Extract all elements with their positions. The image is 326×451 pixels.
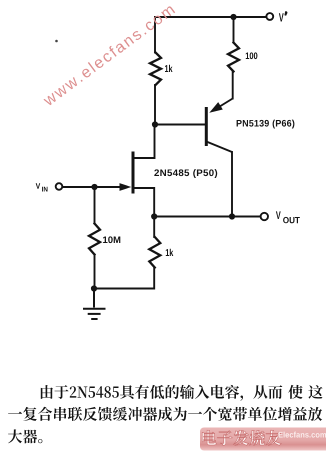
wire 10M to ground node	[94, 255, 96, 289]
watermark badge text 电子发烧友	[202, 430, 281, 445]
wire JFET drain lead up to node A	[133, 125, 155, 159]
ink speck	[55, 40, 58, 43]
wire VIN to gate	[63, 186, 121, 188]
watermark www.elecfans.com	[42, 3, 176, 107]
transistor Q2 emitter arrowhead	[209, 102, 223, 113]
wire left branch upper	[154, 17, 156, 53]
transistor Q2 PN5139 base bar	[205, 107, 208, 146]
caption line 2	[8, 407, 322, 421]
transistor Q2 collector diagonal	[206, 142, 232, 153]
terminal VIN circle	[56, 183, 63, 190]
ground	[83, 289, 106, 320]
terminal VOUT circle	[261, 213, 268, 220]
resistor R2 10M zigzag	[89, 224, 100, 255]
wire R3 to Q2 emitter	[232, 72, 234, 99]
label terminal VOUT	[276, 211, 281, 219]
wire Q2 collector down	[231, 152, 233, 217]
wire 100 resistor top	[233, 17, 235, 43]
caption line 3	[8, 429, 42, 443]
label terminal V+	[279, 13, 284, 21]
wire bottom rail to ground node	[95, 268, 155, 289]
label Q2 type PN5139 (P66)	[237, 120, 295, 129]
label R1 value 1k	[165, 65, 173, 72]
node ground junction	[91, 285, 97, 291]
transistor Q2 emitter diagonal	[214, 99, 233, 111]
label R3 value 100	[246, 52, 258, 59]
resistor R1 1k zigzag	[150, 53, 161, 86]
watermark badge text Elecfans.com	[279, 432, 326, 438]
wire node A to Q2 base	[155, 124, 205, 126]
label R2 value 10M	[103, 236, 120, 243]
transistor Q1 2N5485 channel bar	[132, 152, 135, 194]
node VOUT collector junction	[229, 213, 235, 219]
label terminal VIN	[36, 183, 41, 189]
label Q1 type 2N5485 (P50)	[154, 169, 217, 178]
node VOUT left junction	[151, 213, 157, 219]
resistor R3 100 zigzag	[228, 43, 239, 72]
node A junction	[152, 121, 158, 127]
wire 10M branch upper	[94, 187, 96, 224]
terminal V+ circle	[266, 13, 273, 20]
transistor Q1 gate arrowhead	[120, 183, 132, 191]
node gate junction	[91, 184, 97, 190]
node top junction	[230, 14, 236, 20]
wire VOUT rail	[154, 216, 260, 218]
wire bottom 1k upper	[153, 217, 155, 238]
resistor R4 1k zigzag	[149, 237, 160, 268]
wire R1 to node A	[154, 85, 156, 125]
label R4 value 1k	[166, 249, 174, 256]
wire top rail V+	[155, 16, 266, 18]
label terminal V+ prime mark	[284, 11, 287, 15]
caption line 1	[41, 385, 323, 401]
wire JFET source lead down to VOUT rail	[133, 188, 154, 217]
